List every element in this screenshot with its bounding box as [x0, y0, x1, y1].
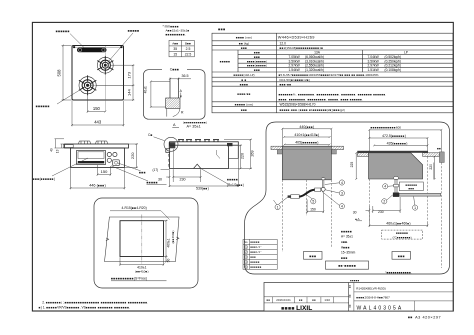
gray unit block (side)	[369, 153, 423, 179]
svg-text:150: 150	[93, 106, 101, 111]
right part grid	[354, 283, 453, 312]
svg-text:150: 150	[310, 207, 316, 211]
svg-text:A= 35±1: A= 35±1	[341, 235, 353, 239]
svg-text:220: 220	[429, 164, 433, 170]
svg-text:LP: LP	[404, 51, 409, 55]
dim 410±1	[283, 136, 331, 138]
svg-text:4: 4	[384, 185, 386, 189]
svg-text:30: 30	[158, 178, 162, 182]
svg-text:■■: ■■	[266, 299, 270, 302]
svg-text:4: 4	[341, 181, 343, 185]
dims 30 / 230	[166, 169, 202, 182]
svg-text:■■2(15A×8)■■■■■■■■■■■1■: ■■2(15A×8)■■■■■■■■■■■1■	[280, 46, 324, 50]
svg-text:220: 220	[130, 152, 135, 159]
dim 36.5	[169, 78, 191, 80]
svg-text:■■■: ■■■	[254, 55, 260, 59]
svg-text:30: 30	[353, 210, 357, 214]
dashed cabinet lines	[282, 180, 331, 252]
svg-text:1: 1	[277, 205, 279, 209]
svg-text:■■■■■■: ■■■■■■	[250, 266, 261, 269]
svg-text:1: 1	[414, 206, 416, 210]
svg-text:■■■: ■■■	[139, 170, 146, 174]
svg-text:A■■: A■■	[172, 42, 178, 46]
plate edge channel verticals	[169, 78, 171, 98]
front fig label	[304, 252, 323, 260]
svg-text:1/10: 1/10	[324, 298, 330, 302]
svg-text:■■■■LIXIL: ■■■■LIXIL	[281, 305, 312, 312]
dim 150 under left figure	[306, 193, 324, 214]
svg-text:(■■460■): (■■460■)	[171, 231, 175, 244]
svg-text:230: 230	[180, 177, 186, 181]
svg-text:●■■.: ●■■.	[341, 240, 349, 244]
svg-text:144: 144	[127, 88, 132, 95]
dim 460±1 and 50	[164, 220, 168, 263]
grill door	[77, 151, 106, 165]
gray unit block	[282, 146, 331, 180]
svg-text:■■■■■■: ■■■■■■	[36, 105, 50, 109]
svg-text:173: 173	[127, 71, 132, 78]
svg-text:(17): (17)	[153, 168, 159, 172]
dims 49 / 13 left	[55, 139, 65, 148]
hole rect	[120, 221, 164, 257]
svg-text:■■■■■■■■■■(S=Free): ■■■■■■■■■■(S=Free)	[111, 277, 147, 281]
svg-text:■■■■■: ■■■■■	[128, 29, 140, 33]
svg-text:■■■: ■■■	[241, 46, 247, 50]
dim 150	[87, 95, 107, 113]
svg-text:508: 508	[57, 69, 62, 77]
top view body	[72, 46, 124, 101]
svg-text:■■■: ■■■	[309, 254, 316, 258]
svg-text:3: 3	[341, 192, 343, 196]
row labels	[220, 35, 267, 112]
svg-text:(*C■■■■■■■): (*C■■■■■■■)	[393, 235, 412, 239]
front face details	[166, 149, 170, 153]
burner left (high power)	[79, 75, 96, 95]
svg-text:■■■■■■: ■■■■■■	[56, 30, 70, 34]
svg-text:■■■: ■■■	[250, 256, 256, 259]
svg-text:7.05kW: 7.05kW	[289, 55, 301, 59]
svg-text:■■■: ■■■	[254, 51, 260, 55]
svg-text:■■■1/2": ■■■1/2"	[250, 250, 261, 254]
svg-text:2.97kW: 2.97kW	[289, 64, 301, 68]
svg-text:A: A	[180, 89, 183, 93]
dim 410±1	[119, 257, 165, 265]
svg-text:■■■■■■■■■■■■600: ■■■■■■■■■■■■600	[371, 126, 402, 130]
side silhouette	[170, 145, 229, 168]
svg-text:WAL40305A: WAL40305A	[357, 306, 404, 312]
svg-text:■■■: ■■■	[218, 27, 225, 31]
worktop hatched section	[166, 98, 180, 108]
border frame	[32, 22, 453, 311]
top plate	[65, 144, 129, 148]
balloons left figure	[275, 180, 345, 210]
svg-text:(1,320kcal/h): (1,320kcal/h)	[305, 68, 324, 72]
C-part detail rounded box	[144, 70, 206, 120]
middle note: standard dims	[341, 229, 356, 260]
svg-text:(■■410■): (■■410■)	[135, 270, 148, 274]
svg-text:B■■: B■■	[185, 42, 191, 46]
burner grates profile	[79, 141, 108, 144]
svg-text:■■: ■■	[437, 146, 441, 150]
svg-text:*■■■■■■■■■■■■.: *■■■■■■■■■■■■.	[385, 271, 412, 275]
svg-text:4: 4	[341, 205, 343, 209]
top plate line	[357, 151, 428, 153]
svg-text:460±1(■■460■): 460±1(■■460■)	[386, 221, 410, 225]
svg-text:■■: ■■	[349, 284, 352, 288]
svg-text:50: 50	[166, 259, 170, 263]
svg-text:(0.108kg/h): (0.108kg/h)	[385, 68, 402, 72]
svg-text:7.04kW: 7.04kW	[368, 55, 380, 59]
center/extension thin lines	[104, 46, 106, 112]
svg-text:5: 5	[312, 200, 314, 204]
svg-text:No: No	[244, 240, 248, 244]
svg-text:1.51kW: 1.51kW	[368, 68, 380, 72]
svg-text:230: 230	[378, 210, 384, 214]
svg-text:410±1(■■410■): 410±1(■■410■)	[294, 133, 319, 137]
svg-text:■■■■■■■%. ■■■■■■■■. ■■■■■■■■■■: ■■■■■■■%. ■■■■■■■■. ■■■■■■■■■■■. ■■■■■■■…	[279, 92, 387, 96]
svg-text:150: 150	[101, 169, 108, 174]
svg-text:40±1: 40±1	[144, 86, 148, 93]
svg-text:■■: ■■	[299, 299, 303, 302]
burner right (standard)	[97, 56, 113, 75]
svg-text:■■■■■: ■■■■■	[341, 229, 352, 233]
svg-text:225: 225	[350, 162, 354, 168]
dim 539	[169, 147, 240, 187]
svg-text:■■■(■■■■■■): ■■■(■■■■■■)	[33, 177, 55, 181]
svg-text:35: 35	[173, 47, 177, 51]
svg-text:■■■■■ (mm): ■■■■■ (mm)	[235, 103, 253, 107]
piping work diagram label	[326, 261, 369, 269]
svg-text:■■■: ■■■	[398, 254, 405, 258]
svg-text:440(■■■): 440(■■■)	[299, 125, 314, 129]
svg-text:405(■■■■■■■): 405(■■■■■■■)	[295, 141, 318, 145]
svg-text:C■: C■	[148, 133, 153, 137]
svg-text:435(■■■■■■): 435(■■■■■■)	[387, 141, 408, 145]
piping/wiring work diagram box	[245, 122, 450, 274]
piping under right figure	[393, 176, 398, 179]
svg-text:■■■■■: ■■■■■	[227, 178, 238, 182]
spec table grid	[212, 33, 453, 113]
svg-text:■■■■■(13A·LP): ■■■■■(13A·LP)	[233, 73, 254, 77]
svg-text:■■■: ■■■	[408, 187, 414, 191]
svg-text:■■■■: ■■■■	[240, 82, 248, 86]
svg-text:■■: ■■	[312, 299, 316, 302]
svg-text:15~35mm: 15~35mm	[341, 251, 356, 255]
svg-text:■■■■■: ■■■■■	[147, 181, 158, 185]
body	[71, 148, 125, 168]
dims 30 / 230 right figure	[366, 197, 402, 213]
gas inlet peak	[194, 164, 201, 168]
left: date row	[264, 297, 349, 303]
balloons right figure	[382, 184, 418, 211]
svg-text:36.5: 36.5	[182, 74, 189, 78]
svg-text:13: 13	[56, 149, 60, 153]
svg-text:▲A: ▲A	[355, 217, 360, 221]
svg-text:■5.8~55.7■■■■■■■■102/105N■■■■1: ■5.8~55.7■■■■■■■■102/105N■■■■192/177■■ ■…	[279, 73, 379, 77]
svg-text:A■■■: A■■■	[341, 245, 350, 249]
title block frame	[264, 283, 453, 312]
svg-text:■■■■/■■: ■■■■/■■	[237, 92, 250, 96]
svg-text:4-R15(■■4-R20): 4-R15(■■4-R20)	[122, 206, 147, 210]
dim 220 right	[125, 143, 138, 169]
svg-text:(3,010kcal/h): (3,010kcal/h)	[305, 59, 324, 63]
side fig label	[392, 252, 411, 260]
svg-text:■■·■■■■■: ■■·■■■■■	[338, 264, 356, 268]
svg-text:C■■■: C■■■	[170, 68, 179, 72]
svg-text:■■■■■: ■■■■■	[250, 241, 259, 244]
top plate band	[170, 142, 239, 145]
svg-text:■■: ■■	[349, 294, 352, 298]
dims 225 / 220	[355, 152, 435, 180]
svg-text:■■■: ■■■	[341, 256, 348, 260]
svg-text:220: 220	[241, 153, 245, 159]
svg-text:■■■■■: ■■■■■	[250, 261, 259, 264]
svg-text:■■: ■■	[349, 304, 352, 308]
svg-text:■■■■(■■■■■): ■■■■(■■■■■)	[247, 64, 267, 68]
counter hatched strips	[271, 146, 284, 149]
dim 150	[97, 165, 112, 176]
C detail circle	[164, 137, 178, 151]
counter hatch strips	[357, 153, 368, 157]
svg-text:A= 35±1: A= 35±1	[187, 125, 201, 129]
svg-text:472.5(■■■■■■): 472.5(■■■■■■)	[382, 134, 406, 138]
A/B small table	[169, 40, 194, 56]
svg-text:1.54kW: 1.54kW	[289, 68, 301, 72]
svg-text:(6,060kcal/h): (6,060kcal/h)	[305, 55, 324, 59]
svg-text:■■ A3 420×297: ■■ A3 420×297	[408, 316, 441, 320]
counter front below hatch	[173, 108, 180, 116]
svg-text:3.50kW: 3.50kW	[368, 59, 380, 63]
svg-text:■■■-■■: ■■■-■■	[280, 82, 292, 86]
svg-text:3.50kW: 3.50kW	[289, 59, 301, 63]
svg-text:■■■■ (mm): ■■■■ (mm)	[236, 35, 252, 39]
svg-text:49: 49	[50, 148, 54, 152]
svg-text:■ ■: ■ ■	[241, 78, 246, 82]
svg-text:■■■: ■■■	[254, 68, 260, 72]
svg-text:2.5: 2.5	[186, 47, 191, 51]
dim 508 left	[62, 45, 72, 102]
svg-text:(2,550kcal/h): (2,550kcal/h)	[305, 64, 324, 68]
dim 446	[70, 168, 126, 189]
knobs and button	[107, 152, 111, 156]
svg-text:2: 2	[383, 200, 385, 204]
reference line position dashed box	[382, 230, 423, 239]
dim 440	[281, 128, 332, 146]
svg-text:(0.212kg/h): (0.212kg/h)	[385, 64, 402, 68]
svg-text:W446×D539×H269: W446×D539×H269	[278, 35, 315, 40]
svg-text:■■■■■: ■■■■■	[220, 59, 231, 63]
svg-text:460±1: 460±1	[166, 238, 170, 247]
svg-text:R142BX8ELVR-R(3D): R142BX8ELVR-R(3D)	[356, 286, 385, 290]
row values	[278, 35, 409, 112]
worktop outline (broken edges)	[105, 217, 180, 262]
exhaust cover	[77, 48, 107, 53]
svg-text:■■■■2GB-8-8-H■■7807: ■■■■2GB-8-8-H■■7807	[356, 295, 390, 299]
svg-text:446 (■■■): 446 (■■■)	[89, 184, 106, 188]
svg-text:DC1.5V(■1■■■■×2■): DC1.5V(■1■■■■×2■)	[280, 78, 310, 82]
svg-text:■■■■. ■■■■■■■■. ■■■■■■■■■. ■■■: ■■■■. ■■■■■■■■. ■■■■■■■■■. ■■■■■. ■■■■ ■…	[279, 97, 364, 101]
svg-text:(0.250kg/h): (0.250kg/h)	[385, 59, 402, 63]
corner screws	[73, 46, 75, 48]
svg-text:443: 443	[94, 119, 102, 124]
svg-text:■■■■■■■■■.: ■■■■■■■■■.	[166, 33, 187, 37]
necessary space note box	[399, 182, 423, 191]
svg-text:539(■■): 539(■■)	[196, 187, 209, 191]
svg-text:■) 1. ■■■■■VR/VS■■■■■■. VS■■■■: ■) 1. ■■■■■VR/VS■■■■■■. VS■■■■■ ■■■■■■■ …	[39, 306, 131, 310]
svg-text:(Rc1/2■■■): (Rc1/2■■■)	[227, 183, 244, 187]
parts list table	[243, 239, 277, 269]
svg-text:2016.04.01: 2016.04.01	[276, 298, 291, 302]
svg-text:R: R	[181, 111, 184, 115]
svg-text:■■■1/2": ■■■1/2"	[250, 245, 261, 249]
svg-text:(0.502kg/h): (0.502kg/h)	[385, 55, 402, 59]
centerline	[141, 215, 143, 265]
svg-text:W515(508)×D588×H170: W515(508)×D588×H170	[280, 103, 316, 107]
grate bumps on top	[178, 140, 219, 142]
cabinet below right figure	[369, 156, 441, 268]
svg-text:■■ (kg): ■■ (kg)	[239, 41, 249, 45]
svg-text:■■■■■: ■■■■■	[350, 279, 359, 282]
dim 405	[283, 144, 330, 146]
svg-text:269: 269	[251, 150, 255, 156]
svg-text:22.5: 22.5	[185, 53, 192, 57]
svg-text:12.0: 12.0	[280, 41, 287, 45]
dim 460±1	[368, 213, 428, 227]
dim 40±1	[150, 80, 170, 108]
dim 443 bottom	[71, 101, 125, 127]
dim 220 / 269 right	[224, 139, 252, 170]
worktop cutout rounded box	[94, 198, 198, 288]
svg-text:2.97kW: 2.97kW	[368, 64, 380, 68]
piping under left figure	[321, 178, 325, 180]
dims 173 / 144 right	[96, 64, 134, 101]
svg-text:15: 15	[173, 53, 177, 57]
svg-text:■■■: ■■■	[241, 108, 247, 112]
svg-text:A: A	[173, 123, 176, 127]
svg-text:2. ■■■■■■■( )■■■■■■■■■■■■■■■■: 2. ■■■■■■■( )■■■■■■■■■■■■■■■■ ■■■■■■■■■■…	[42, 301, 148, 305]
svg-text:■■■■(■■■■■): ■■■■(■■■■■)	[247, 59, 267, 63]
svg-text:■■■■■·■■■·(■■■■ ■1■■■■■■■(2■)): ■■■■■·■■■·(■■■■ ■1■■■■■■■(2■))■■■(g2)	[280, 108, 345, 112]
